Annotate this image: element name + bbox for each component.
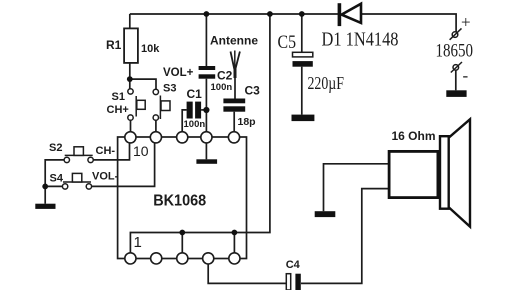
pushbutton S4 <box>62 173 91 189</box>
capacitor C5 top plate (hollow) <box>293 52 313 57</box>
wire C2 column upper <box>205 14 207 66</box>
ground at pin 7 <box>196 159 217 164</box>
svg-text:220µF: 220µF <box>308 73 345 93</box>
wire pin 4 to C4 <box>208 264 286 283</box>
wire battery minus to ground <box>455 70 457 90</box>
node S4 left ground <box>42 184 48 190</box>
wire top rail left segment <box>130 13 338 15</box>
capacitor C2 plates <box>199 66 216 79</box>
speaker cone <box>449 119 470 226</box>
battery minus terminal <box>451 62 462 73</box>
svg-text:R1: R1 <box>106 38 122 52</box>
wire VOL- to pin 9 <box>92 142 155 186</box>
svg-text:100n: 100n <box>211 82 233 93</box>
svg-text:C5: C5 <box>278 32 297 53</box>
svg-text:VOL+: VOL+ <box>163 67 194 79</box>
wire R1 column <box>129 14 131 28</box>
capacitor C5 bottom plate <box>293 61 313 67</box>
pushbutton S1 <box>128 89 145 121</box>
wire antenna stem <box>234 68 236 99</box>
wire C5 column upper <box>301 14 303 52</box>
svg-text:+: + <box>461 13 471 32</box>
wire C1 right to node <box>201 109 206 111</box>
wire speaker top to ground <box>324 164 390 211</box>
wire R1 bottom to S1 <box>129 63 131 89</box>
svg-text:10: 10 <box>133 143 149 159</box>
capacitor C3 plates <box>223 99 245 112</box>
IC pin circles top row: pins 10 9 8 7 6 <box>125 132 240 143</box>
svg-text:S3: S3 <box>163 83 176 95</box>
svg-text:C2: C2 <box>217 69 233 83</box>
wire C5 to ground <box>301 67 303 115</box>
svg-text:BK1068: BK1068 <box>153 193 206 210</box>
capacitor C4 left plate (hollow) <box>286 274 290 290</box>
svg-text:S4: S4 <box>50 173 64 185</box>
ground below battery <box>446 90 466 97</box>
svg-text:18650: 18650 <box>436 41 474 62</box>
capacitor C1 plates <box>187 102 202 119</box>
node C1-C2-pin7 <box>203 107 209 113</box>
svg-text:Antenne: Antenne <box>210 34 258 48</box>
capacitor C4 right plate <box>295 274 300 290</box>
svg-text:S2: S2 <box>49 142 62 154</box>
IC pin circles bottom row: pins 1 2 3 4 5 <box>125 253 240 264</box>
wire C4 to speaker <box>301 189 389 284</box>
wire pin 7 ground stem <box>205 143 207 159</box>
node bus pin 5 <box>232 230 238 236</box>
svg-text:C1: C1 <box>187 87 203 101</box>
svg-text:10k: 10k <box>141 43 160 55</box>
antenna <box>231 51 240 79</box>
node rail-C2 <box>204 11 210 17</box>
wire bus stub pin 3 <box>181 233 183 254</box>
svg-text:CH-: CH- <box>96 145 116 157</box>
battery plus terminal <box>450 28 462 39</box>
svg-text:CH+: CH+ <box>107 104 129 116</box>
node R1 bottom <box>127 76 133 82</box>
ground at speaker <box>315 211 336 217</box>
resistor R1 <box>124 28 138 63</box>
svg-text:100n: 100n <box>184 119 206 130</box>
diode D1 cathode bar <box>338 3 342 26</box>
wire S2 left to ground <box>45 160 64 204</box>
svg-text:16 Ohm: 16 Ohm <box>392 129 436 143</box>
svg-text:C4: C4 <box>286 259 301 271</box>
wire C2 bottom to pin 7 <box>205 79 207 133</box>
svg-text:VOL-: VOL- <box>92 171 119 183</box>
wire CH- to pin 10 <box>93 142 129 160</box>
ground below C5 <box>292 115 315 122</box>
node bus pin 3 <box>179 230 185 236</box>
wire top rail right segment <box>361 14 456 32</box>
node rail-bus riser <box>267 11 273 17</box>
pushbutton S2 <box>64 147 93 163</box>
wire branch to S3 top <box>130 79 156 89</box>
svg-text:S1: S1 <box>112 91 125 103</box>
diode D1 triangle <box>342 4 362 23</box>
speaker baffle <box>440 136 449 209</box>
svg-text:C3: C3 <box>245 84 261 98</box>
wire C1 left to pin 8 <box>182 110 186 133</box>
wire S1 bottom to pin 10 <box>130 120 132 133</box>
pushbutton S3 <box>153 89 170 120</box>
svg-text:18p: 18p <box>238 116 256 128</box>
speaker body <box>389 151 438 197</box>
svg-text:-: - <box>463 66 469 85</box>
wire bus stub pin 5 <box>233 233 235 254</box>
ground below switches <box>35 204 55 209</box>
wire ground bus riser and internal bus <box>130 14 270 253</box>
node rail-C5 <box>299 11 305 17</box>
svg-text:1: 1 <box>134 234 142 251</box>
wire S3 bottom to pin 9 <box>155 120 157 133</box>
wire S4 left to junction <box>45 185 62 187</box>
svg-text:D1 1N4148: D1 1N4148 <box>322 29 399 50</box>
wire C3 bottom to pin 6 <box>233 112 235 133</box>
op-amp U1 BK1068 IC body <box>118 137 247 259</box>
